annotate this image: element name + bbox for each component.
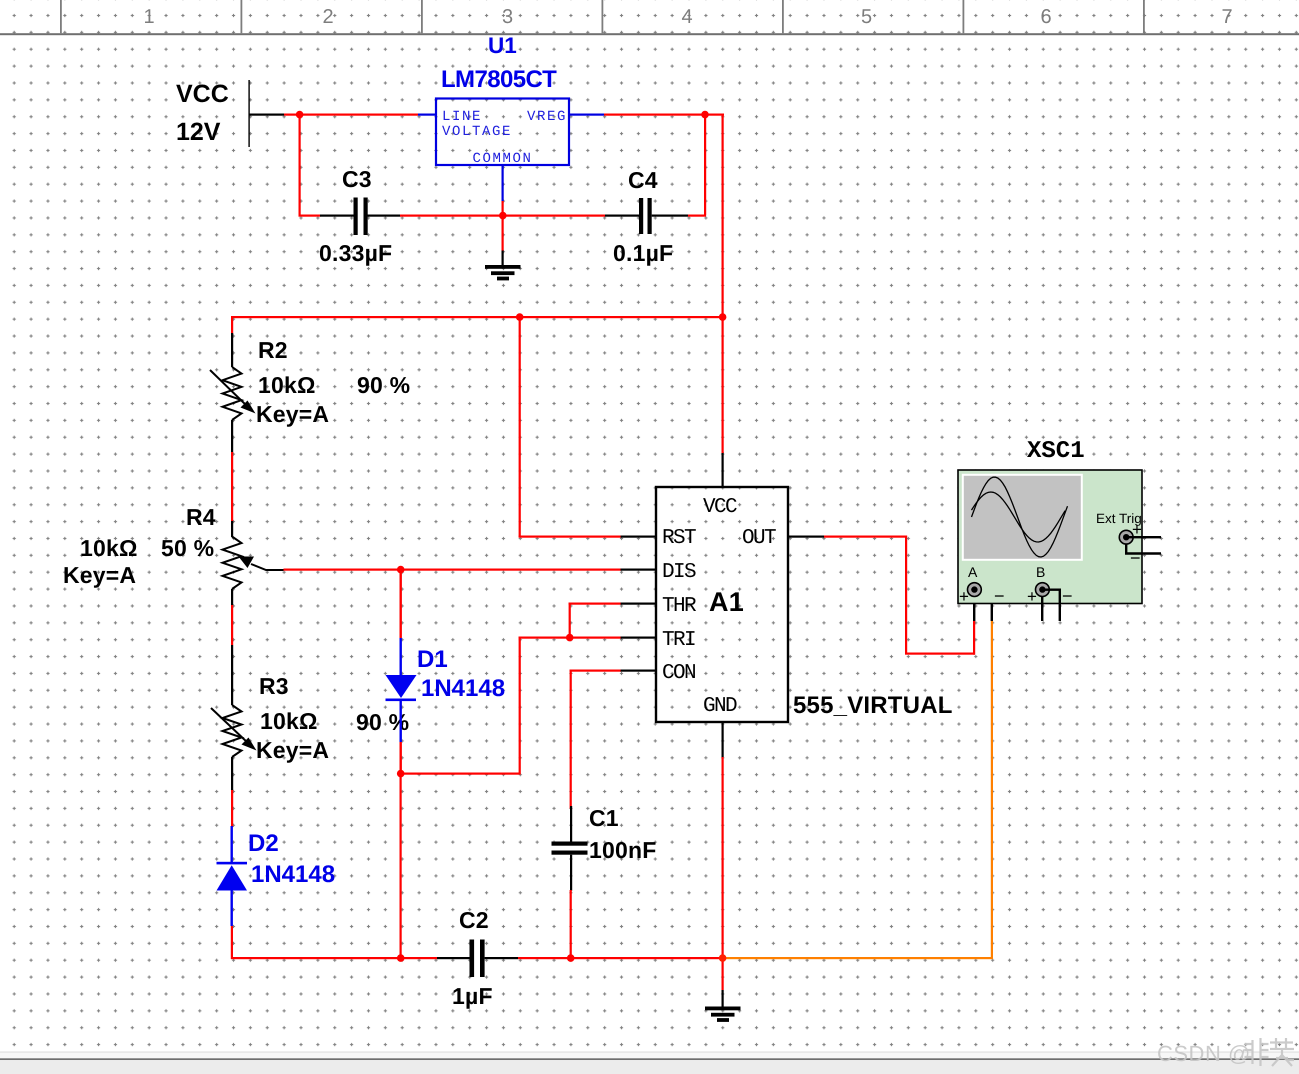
svg-text:1: 1 — [143, 6, 154, 28]
svg-text:R4: R4 — [186, 504, 216, 530]
wire red CON to C1 — [570, 670, 621, 672]
wire red R3 to D2 — [231, 790, 233, 827]
svg-text:555_VIRTUAL: 555_VIRTUAL — [793, 692, 953, 719]
svg-text:THR: THR — [662, 595, 697, 618]
svg-text:100nF: 100nF — [589, 837, 656, 863]
wire red bottom rail right — [518, 957, 724, 959]
wire red 555 VCC — [722, 317, 724, 453]
wire red OUT down — [905, 536, 907, 655]
wire red bottom rail left — [231, 957, 437, 959]
pin stub U1 VREG (blue) — [569, 114, 604, 116]
ruler numbers — [143, 6, 1232, 28]
svg-text:LINE: LINE — [442, 109, 482, 125]
capacitor C2 — [437, 907, 518, 1009]
wire black ext trig plus — [1126, 536, 1161, 538]
svg-text:B: B — [1036, 564, 1045, 580]
wire red D2 to bottom rail — [231, 926, 233, 959]
pin stub DIS — [620, 569, 656, 571]
wire red TRI row — [519, 637, 621, 639]
svg-text:−: − — [1130, 548, 1141, 568]
svg-text:1N4148: 1N4148 — [421, 675, 505, 702]
svg-text:CON: CON — [662, 662, 695, 685]
svg-text:2: 2 — [322, 6, 333, 28]
pin stub 555 VCC top — [722, 452, 724, 487]
svg-text:VCC: VCC — [176, 80, 229, 108]
node junction D1 bottom — [397, 770, 405, 778]
svg-text:VOLTAGE: VOLTAGE — [442, 124, 512, 140]
wire red C1 to bottom rail — [570, 890, 572, 959]
svg-text:A1: A1 — [709, 587, 744, 617]
ruler bottom line — [0, 33, 1299, 35]
svg-text:50 %: 50 % — [161, 535, 214, 561]
wire red common down — [502, 201, 504, 251]
wire black scope B minus lead — [1043, 590, 1060, 621]
svg-text:3: 3 — [502, 6, 513, 28]
node junction C1/bottom — [567, 954, 575, 962]
svg-text:R2: R2 — [258, 337, 288, 363]
svg-text:Key=A: Key=A — [256, 401, 329, 427]
svg-text:LM7805CT: LM7805CT — [441, 66, 557, 93]
wire orange bottom — [723, 957, 993, 959]
svg-text:D2: D2 — [248, 830, 279, 857]
svg-text:10kΩ: 10kΩ — [258, 372, 316, 398]
diode D1 1N4148 — [386, 569, 506, 774]
wire black ext trig minus — [1126, 544, 1161, 554]
svg-text:12V: 12V — [176, 118, 221, 146]
wire red C4 to vertical — [688, 215, 706, 217]
svg-text:10kΩ: 10kΩ — [260, 708, 318, 734]
Ext Trig terminal — [1119, 520, 1142, 568]
wire red RST from rail — [519, 317, 521, 537]
svg-text:7: 7 — [1221, 6, 1232, 28]
wire black scope B plus lead — [1041, 596, 1043, 621]
svg-text:1N4148: 1N4148 — [251, 861, 335, 888]
pin stub THR — [620, 603, 656, 605]
wire black scope A plus lead — [973, 596, 975, 621]
node junction rail/555 VCC — [719, 313, 727, 321]
svg-text:COMMON: COMMON — [472, 151, 532, 167]
svg-text:XSC1: XSC1 — [1027, 438, 1085, 465]
svg-text:−: − — [994, 586, 1005, 606]
potentiometer R3 — [211, 645, 409, 790]
svg-text:+: + — [959, 587, 969, 606]
ground bottom — [705, 1007, 741, 1022]
wire rail y=317 — [231, 316, 723, 318]
svg-text:C1: C1 — [589, 805, 619, 831]
op-amp A1 555 box — [656, 487, 788, 722]
wire red rail corner down to R2 — [231, 316, 233, 334]
capacitor C3 — [319, 166, 401, 266]
svg-text:C3: C3 — [342, 166, 372, 192]
pin stub U1 COMMON (blue) — [502, 165, 504, 201]
svg-text:90 %: 90 % — [357, 372, 410, 398]
svg-text:10kΩ: 10kΩ — [80, 535, 138, 561]
svg-text:GND: GND — [703, 695, 737, 718]
wire red THR branch — [569, 603, 621, 605]
svg-text:U1: U1 — [488, 33, 517, 58]
svg-text:5: 5 — [861, 6, 872, 28]
svg-text:C4: C4 — [628, 167, 658, 193]
watermark CSDN — [1157, 1038, 1294, 1066]
svg-text:1µF: 1µF — [452, 983, 493, 1009]
pin stub U1 LINE (blue) — [418, 114, 435, 116]
svg-text:DIS: DIS — [662, 561, 696, 584]
node junction VCC — [296, 111, 304, 119]
wire black scope A minus lead — [975, 590, 992, 621]
node junction GND/bottom — [719, 954, 727, 962]
svg-text:R3: R3 — [259, 673, 289, 699]
node junction above C4 — [701, 111, 709, 119]
node junction rail/RST — [516, 313, 524, 321]
svg-text:VCC: VCC — [703, 496, 737, 519]
ruler ticks — [60, 0, 1145, 33]
wire red C3 to common junction — [400, 215, 503, 217]
svg-text:+: + — [1027, 587, 1037, 606]
wire VCC to junction (black lead) — [249, 114, 284, 116]
wire red DIS to R4 wiper — [284, 569, 621, 571]
pin stub TRI — [620, 637, 656, 639]
node junction common/C3/C4 — [499, 212, 507, 220]
wire red VREG to corner — [604, 114, 724, 116]
wire C3 row red left stub — [299, 215, 321, 217]
wire red C3 row to C4 — [503, 215, 605, 217]
svg-text:0.1µF: 0.1µF — [613, 240, 673, 266]
VCC power symbol — [248, 80, 249, 147]
channel B terminal — [1027, 564, 1073, 606]
wire red OUT right — [824, 536, 907, 538]
svg-text:C2: C2 — [459, 907, 489, 933]
pin stub 555 GND bottom — [722, 723, 724, 757]
pin stub RST — [620, 536, 656, 538]
oscilloscope body — [958, 470, 1142, 604]
wire red R2 to R4 — [231, 452, 233, 522]
node junction D1/bottom — [397, 954, 405, 962]
wire red R4 to R3 — [231, 605, 233, 645]
wire red top to regulator — [284, 114, 418, 116]
potentiometer R2 — [210, 333, 410, 452]
capacitor C4 — [605, 167, 688, 266]
svg-text:CSDN @: CSDN @ — [1157, 1041, 1251, 1066]
capacitor C1 — [552, 805, 657, 891]
svg-text:OUT: OUT — [742, 527, 776, 550]
svg-text:Key=A: Key=A — [63, 562, 136, 588]
wire red up to scope A — [973, 621, 975, 655]
svg-text:6: 6 — [1040, 6, 1051, 28]
node junction THR/TRI — [566, 634, 574, 642]
pin stub OUT — [788, 536, 824, 538]
svg-text:D1: D1 — [417, 646, 448, 673]
wire red down-left branch to C3 — [299, 115, 301, 216]
wire red down to C4 — [704, 115, 706, 216]
wire black to ground — [502, 251, 504, 268]
svg-text:TRI: TRI — [662, 629, 695, 652]
potentiometer R4 — [63, 504, 284, 605]
svg-text:0.33µF: 0.33µF — [319, 240, 392, 266]
op-amp U1 regulator box LM7805CT — [436, 99, 569, 168]
svg-text:Key=A: Key=A — [256, 737, 329, 763]
wire red down from top corner to rail — [722, 114, 724, 318]
svg-text:4: 4 — [681, 6, 692, 28]
svg-text:−: − — [1062, 586, 1073, 606]
svg-text:VREG: VREG — [527, 109, 567, 125]
wire black to ground 2 — [722, 990, 724, 1007]
svg-text:A: A — [968, 564, 978, 580]
diode D2 1N4148 — [217, 826, 336, 926]
pin stub CON — [620, 670, 656, 672]
wire red OUT right2 — [905, 653, 975, 655]
channel A terminal — [959, 564, 1005, 606]
wire red TRI corner down to D1 row — [519, 637, 521, 775]
wire red 555 GND down — [722, 757, 724, 990]
wire orange scope A minus down — [991, 621, 993, 959]
wire red D1 junction down to bottom rail — [400, 774, 402, 959]
svg-text:RST: RST — [662, 527, 696, 550]
ground under U1 — [485, 265, 521, 280]
node junction wiper/D1 — [397, 566, 405, 574]
